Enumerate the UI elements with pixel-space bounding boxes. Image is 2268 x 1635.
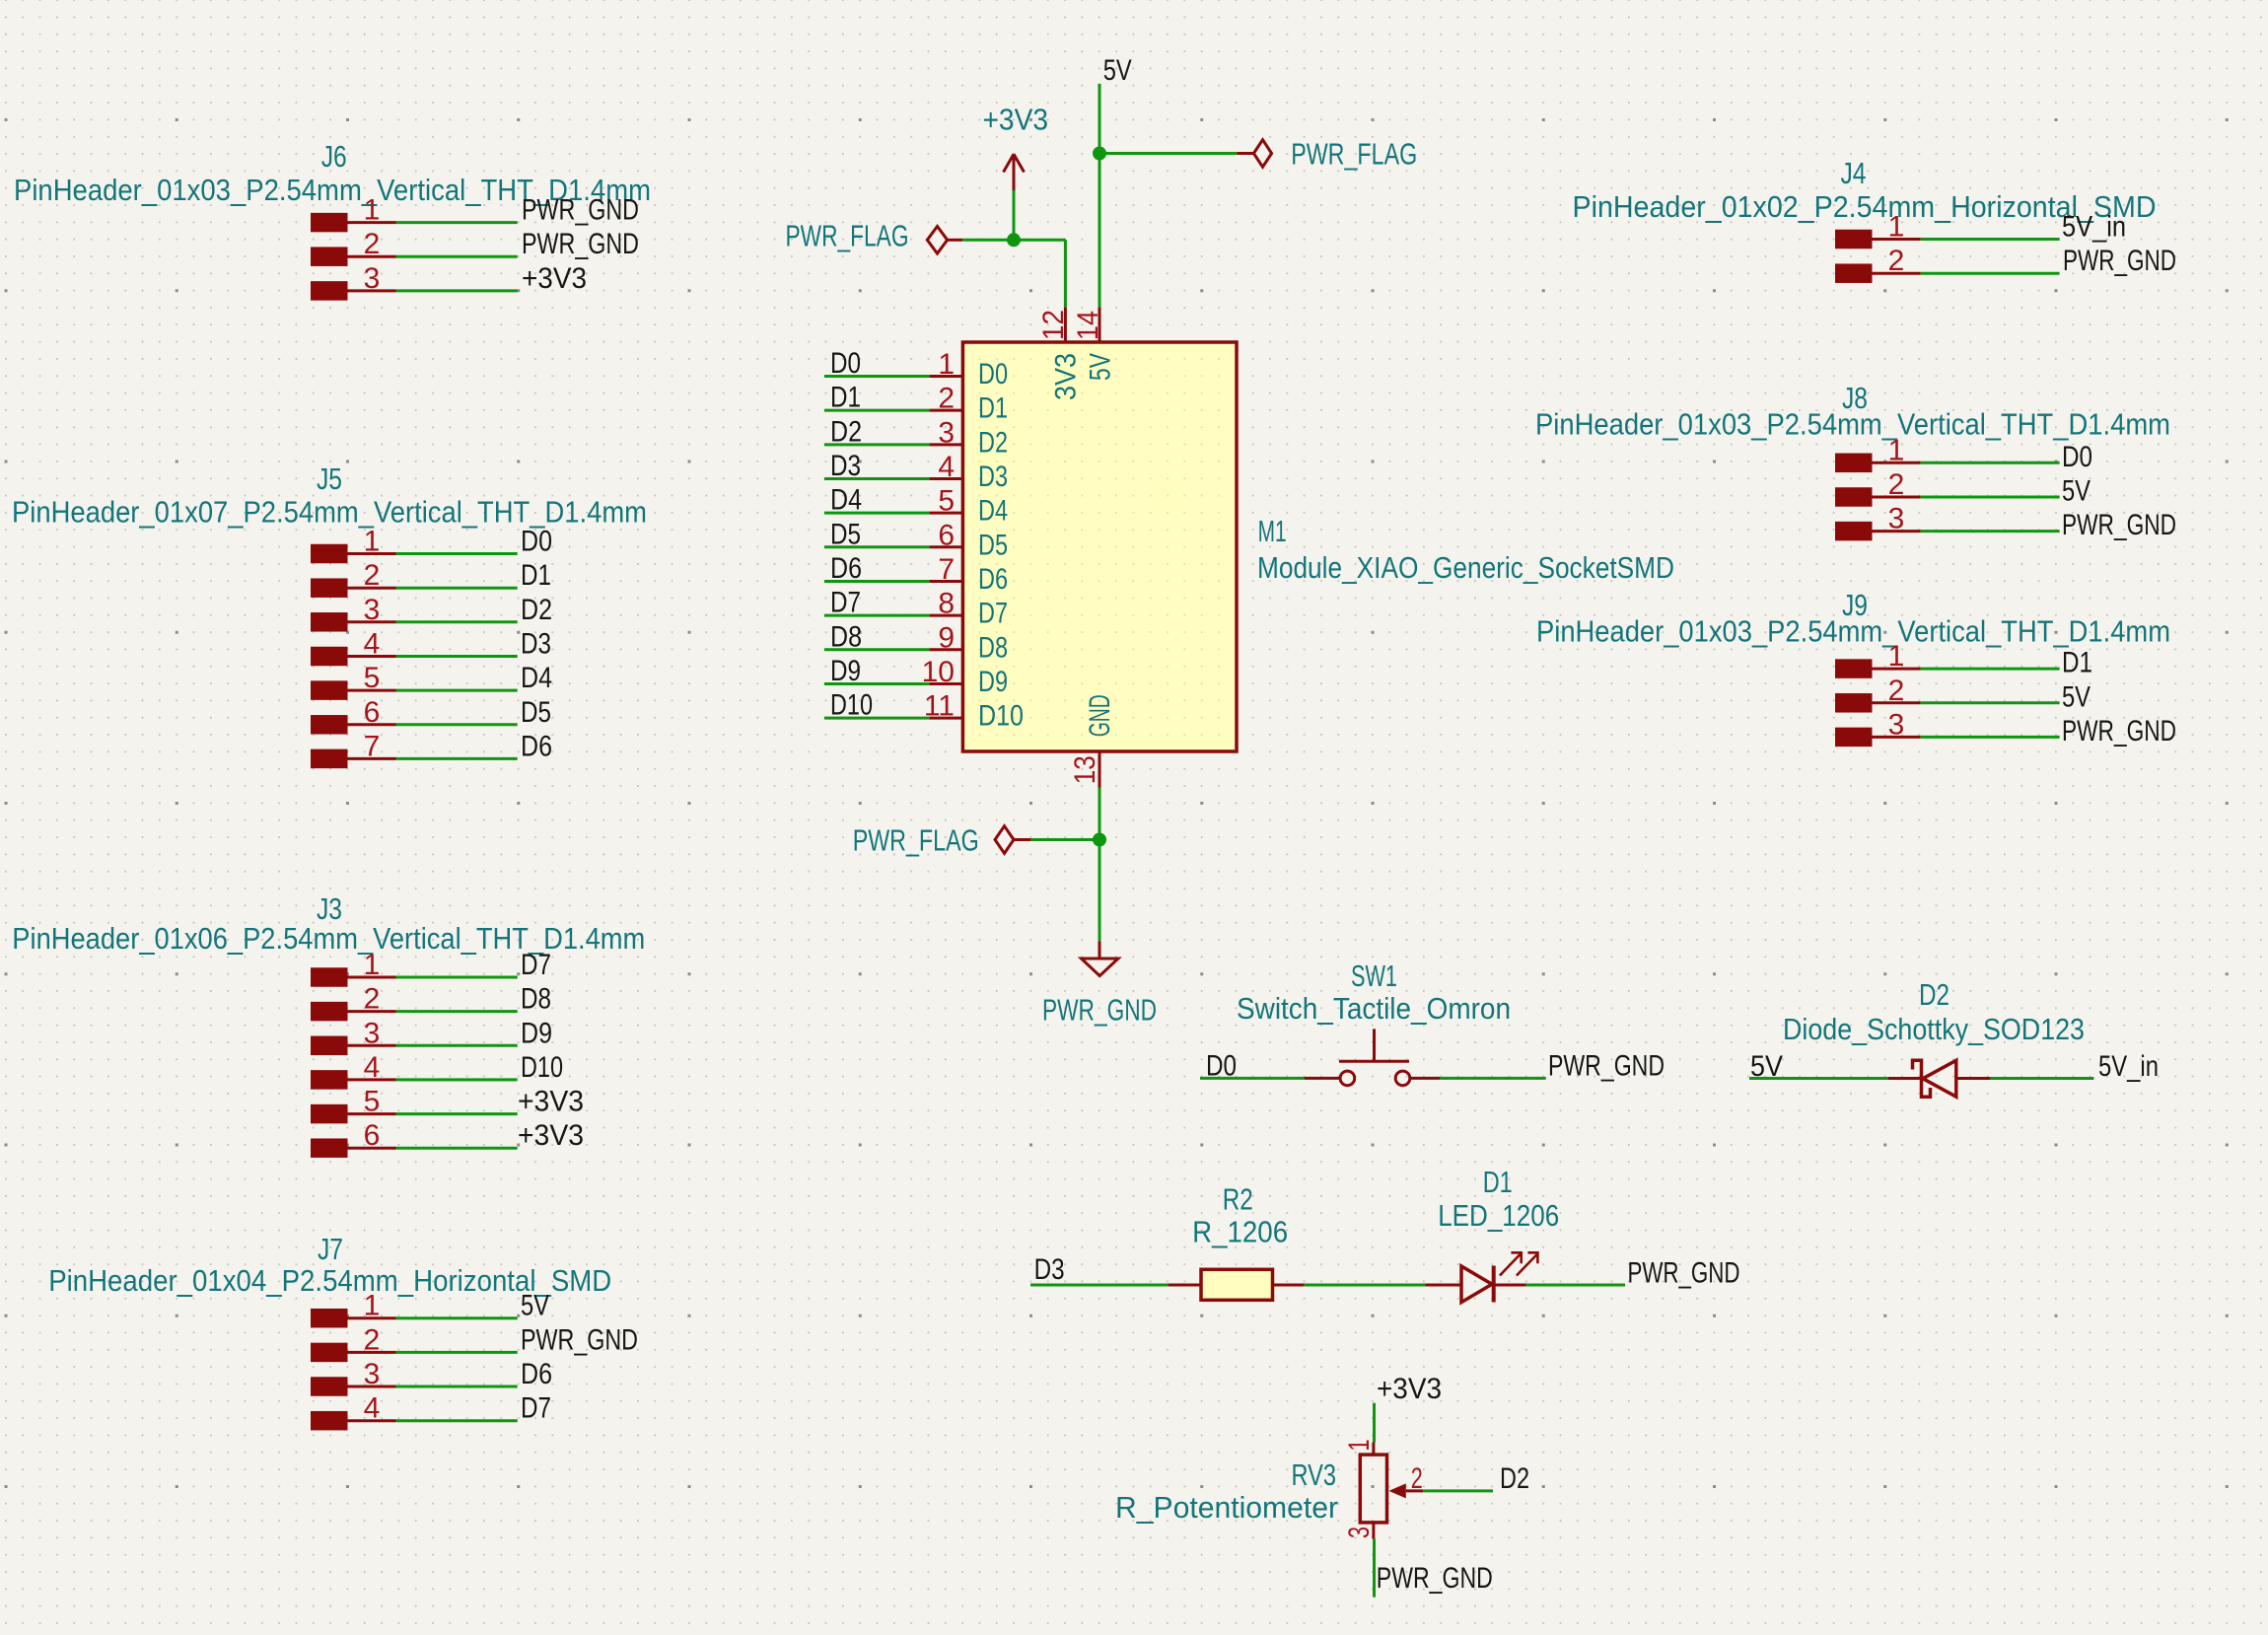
wire PWR_GND to J9 pin 3 — [1921, 736, 2060, 739]
R2 pin 2 line — [1273, 1284, 1305, 1287]
J9 pin 1 line — [1873, 668, 1921, 671]
svg-text:D10: D10 — [978, 700, 1024, 733]
svg-text:PWR_FLAG: PWR_FLAG — [786, 218, 909, 252]
svg-text:M1: M1 — [1258, 514, 1287, 548]
svg-text:D3: D3 — [521, 628, 551, 661]
svg-text:D6: D6 — [521, 1358, 552, 1390]
svg-text:PWR_GND: PWR_GND — [522, 228, 639, 260]
J7 pin 1 pad — [311, 1309, 348, 1328]
wire 5V to J7 pin 1 — [396, 1316, 518, 1319]
wire PWR_GND to J6 pin 1 — [396, 221, 518, 224]
power flag PF3 diamond — [995, 826, 1014, 854]
J7 pin 3 pad — [311, 1377, 348, 1396]
wire 5V vertical — [1099, 84, 1101, 308]
svg-text:D0: D0 — [830, 347, 861, 380]
power flag PF3 pin — [1014, 838, 1031, 841]
junction +3V3 — [1007, 233, 1021, 247]
svg-text:SW1: SW1 — [1351, 959, 1397, 993]
J5 pin 1 line — [348, 552, 396, 555]
J4 pin 2 pad — [1835, 263, 1873, 283]
wire D9 to J3 pin 3 — [396, 1044, 518, 1047]
svg-text:D2: D2 — [978, 426, 1008, 459]
M1 pin 11 line — [929, 717, 962, 720]
wire D2 to J5 pin 3 — [396, 620, 518, 623]
J8 pin 3 line — [1873, 530, 1921, 533]
svg-text:R2: R2 — [1223, 1182, 1253, 1217]
wire 5V to J9 pin 2 — [1921, 701, 2060, 704]
wire D0 to M1 pin 1 — [824, 375, 929, 378]
wire D1 to M1 pin 2 — [824, 409, 929, 412]
J3 pin 2 pad — [311, 1002, 348, 1022]
J7 pin 3 line — [348, 1386, 396, 1388]
J4 pin 1 line — [1873, 238, 1921, 241]
svg-text:D1: D1 — [521, 559, 551, 592]
wire D0 to J8 pin 1 — [1921, 462, 2060, 464]
D1 anode triangle — [1461, 1266, 1492, 1303]
SW1 contact circle left — [1340, 1071, 1355, 1086]
svg-text:12: 12 — [1037, 310, 1070, 340]
J3 pin 1 line — [348, 976, 396, 979]
svg-text:D2: D2 — [830, 415, 862, 448]
svg-text:5V_in: 5V_in — [2062, 211, 2126, 244]
svg-text:R_Potentiometer: R_Potentiometer — [1115, 1490, 1338, 1525]
J6 pin 1 line — [348, 221, 396, 224]
power flag PF2 diamond — [1253, 140, 1271, 168]
svg-text:PWR_GND: PWR_GND — [2062, 715, 2176, 747]
D1 emission arrow 1 — [1500, 1252, 1522, 1275]
R2 pin 1 line — [1169, 1284, 1201, 1287]
J3 pin 3 pad — [311, 1036, 348, 1056]
wire M1 pin 13 to ground — [1099, 788, 1101, 942]
wire D10 to M1 pin 11 — [824, 717, 929, 720]
wire 5V to D2 — [1749, 1077, 1888, 1080]
J9 pin 2 pad — [1835, 693, 1873, 713]
svg-text:D6: D6 — [978, 563, 1008, 596]
D1 cathode bar — [1492, 1266, 1496, 1303]
svg-text:PinHeader_01x03_P2.54mm_Vertic: PinHeader_01x03_P2.54mm_Vertical_THT_D1.… — [1535, 407, 2170, 442]
wire D0 to J5 pin 1 — [396, 552, 518, 555]
junction GND — [1093, 833, 1106, 847]
J5 pin 1 pad — [311, 544, 348, 564]
wire SW1 to PWR_GND — [1440, 1077, 1546, 1080]
wire RV3 to PWR_GND — [1373, 1538, 1376, 1597]
svg-text:D9: D9 — [978, 666, 1008, 698]
wire PWR_GND to J6 pin 2 — [396, 255, 518, 258]
M1 pin 3 line — [929, 443, 962, 446]
potentiometer RV3 body — [1360, 1455, 1386, 1523]
J5 pin 4 pad — [311, 647, 348, 667]
module M1 body — [962, 342, 1237, 751]
wire D1 to J9 pin 1 — [1921, 668, 2060, 671]
J3 pin 4 line — [348, 1078, 396, 1081]
wire D6 to J5 pin 7 — [396, 757, 518, 760]
J3 pin 5 line — [348, 1112, 396, 1115]
wire D1 to PWR_GND — [1526, 1284, 1625, 1287]
D2 cathode schottky bar — [1913, 1060, 1931, 1097]
J8 pin 3 pad — [1835, 522, 1873, 541]
svg-text:D6: D6 — [830, 552, 862, 585]
J6 pin 2 pad — [311, 247, 348, 266]
J3 pin 1 pad — [311, 967, 348, 987]
J7 pin 2 line — [348, 1351, 396, 1354]
RV3 pin 2 line — [1406, 1489, 1424, 1492]
svg-text:J5: J5 — [317, 462, 342, 496]
wire 5V_in to J4 pin 1 — [1921, 238, 2060, 241]
svg-text:D3: D3 — [978, 461, 1008, 493]
M1 pin 14 line — [1099, 307, 1101, 342]
svg-text:3: 3 — [938, 416, 955, 449]
J6 pin 3 line — [348, 289, 396, 292]
J6 pin 2 line — [348, 255, 396, 258]
junction 5V — [1093, 147, 1106, 161]
J7 pin 1 line — [348, 1316, 396, 1319]
M1 pin 13 line — [1099, 751, 1101, 788]
wire D10 to J3 pin 4 — [396, 1078, 518, 1081]
svg-text:Switch_Tactile_Omron: Switch_Tactile_Omron — [1237, 991, 1511, 1026]
power flag PF1 diamond — [927, 227, 947, 254]
svg-text:PWR_GND: PWR_GND — [2062, 509, 2176, 541]
SW1 actuator bar — [1339, 1060, 1409, 1063]
svg-text:D8: D8 — [978, 631, 1008, 664]
SW1 pin 1 line — [1305, 1077, 1340, 1080]
wire PWR_GND to J4 pin 2 — [1921, 272, 2060, 275]
J7 pin 4 line — [348, 1419, 396, 1422]
svg-text:2: 2 — [1411, 1462, 1423, 1495]
svg-text:GND: GND — [1084, 694, 1116, 737]
wire D2 to 5V_in — [1990, 1077, 2093, 1080]
svg-text:R_1206: R_1206 — [1192, 1215, 1288, 1249]
resistor R2 body — [1201, 1269, 1273, 1300]
svg-text:PWR_GND: PWR_GND — [521, 1323, 638, 1356]
wire D6 to M1 pin 7 — [824, 580, 929, 583]
wire 5V to J8 pin 2 — [1921, 496, 2060, 499]
J3 pin 2 line — [348, 1010, 396, 1013]
J8 pin 1 pad — [1835, 454, 1873, 473]
wire PWR_FLAG to GND net — [1031, 838, 1099, 841]
SW1 contact circle right — [1395, 1071, 1410, 1086]
wire D1 to J5 pin 2 — [396, 587, 518, 590]
RV3 wiper arrow — [1388, 1483, 1405, 1498]
M1 pin 4 line — [929, 477, 962, 480]
svg-text:D5: D5 — [521, 696, 551, 729]
svg-text:13: 13 — [1069, 755, 1101, 784]
wire +3V3 stem — [1013, 190, 1016, 240]
J4 pin 1 pad — [1835, 230, 1873, 249]
svg-text:D4: D4 — [978, 495, 1008, 528]
svg-text:J7: J7 — [318, 1232, 343, 1266]
J8 pin 1 line — [1873, 462, 1921, 464]
svg-text:+3V3: +3V3 — [1377, 1373, 1442, 1405]
J8 pin 2 pad — [1835, 487, 1873, 507]
wire D6 to J7 pin 3 — [396, 1386, 518, 1388]
svg-text:J4: J4 — [1841, 156, 1867, 190]
D1 pin 1 line — [1426, 1284, 1462, 1287]
svg-text:RV3: RV3 — [1292, 1457, 1337, 1492]
svg-text:3V3: 3V3 — [1049, 353, 1082, 400]
svg-text:5V: 5V — [1084, 353, 1116, 381]
svg-text:D7: D7 — [830, 587, 861, 619]
svg-text:Diode_Schottky_SOD123: Diode_Schottky_SOD123 — [1783, 1012, 2085, 1046]
wire +3V3 to J6 pin 3 — [396, 289, 518, 292]
M1 pin 7 line — [929, 580, 962, 583]
svg-text:D5: D5 — [830, 518, 861, 550]
wire D2 to M1 pin 3 — [824, 443, 929, 446]
wire D7 to J7 pin 4 — [396, 1419, 518, 1422]
J9 pin 1 pad — [1835, 659, 1873, 678]
J5 pin 7 pad — [311, 749, 348, 769]
J5 pin 4 line — [348, 655, 396, 658]
wire +3V3 to J3 pin 6 — [396, 1147, 518, 1150]
wire D7 to M1 pin 8 — [824, 614, 929, 617]
D1 emission arrow 2 — [1517, 1252, 1538, 1275]
svg-text:J6: J6 — [321, 139, 347, 174]
J5 pin 3 line — [348, 620, 396, 623]
svg-text:1: 1 — [1343, 1440, 1376, 1452]
svg-text:5V: 5V — [1103, 54, 1132, 87]
wire D0 to SW1 — [1200, 1077, 1305, 1080]
J5 pin 6 line — [348, 723, 396, 726]
RV3 pin 3 line — [1372, 1523, 1375, 1539]
wire PWR_GND to J8 pin 3 — [1921, 530, 2060, 533]
svg-text:5: 5 — [938, 485, 955, 518]
SW1 pin 2 line — [1410, 1077, 1440, 1080]
svg-text:D8: D8 — [521, 983, 551, 1016]
M1 pin 6 line — [929, 545, 962, 548]
svg-text:D0: D0 — [978, 358, 1008, 391]
M1 pin 1 line — [929, 375, 962, 378]
svg-text:D1: D1 — [830, 382, 861, 414]
power flag PF2 pin — [1237, 152, 1253, 155]
svg-text:2: 2 — [938, 383, 955, 415]
svg-text:5V: 5V — [2062, 680, 2091, 713]
svg-text:4: 4 — [938, 451, 955, 483]
svg-text:PWR_FLAG: PWR_FLAG — [853, 823, 979, 858]
svg-text:3: 3 — [1343, 1527, 1376, 1538]
module M1 body grid dots — [964, 344, 1235, 749]
M1 pin 5 line — [929, 512, 962, 515]
wire R2 to D1 — [1305, 1284, 1426, 1287]
D2 anode triangle — [1923, 1060, 1956, 1097]
M1 pin 8 line — [929, 614, 962, 617]
J7 pin 2 pad — [311, 1343, 348, 1363]
svg-text:PWR_FLAG: PWR_FLAG — [1291, 137, 1417, 172]
svg-text:PWR_GND: PWR_GND — [1377, 1562, 1493, 1595]
svg-text:D10: D10 — [830, 689, 873, 722]
wire 5V to PWR_FLAG horizontal — [1099, 152, 1237, 155]
svg-text:D0: D0 — [521, 526, 552, 558]
svg-text:8: 8 — [938, 588, 955, 620]
svg-text:D5: D5 — [978, 529, 1008, 561]
J4 pin 2 line — [1873, 272, 1921, 275]
svg-text:D4: D4 — [521, 662, 552, 694]
wire +3V3 to J3 pin 5 — [396, 1112, 518, 1115]
J6 pin 3 pad — [311, 281, 348, 301]
wire RV3 wiper to D2 — [1423, 1489, 1493, 1492]
svg-text:Module_XIAO_Generic_SocketSMD: Module_XIAO_Generic_SocketSMD — [1257, 550, 1674, 585]
svg-text:D7: D7 — [521, 949, 551, 981]
J3 pin 3 line — [348, 1044, 396, 1047]
power symbol +3V3 arrow — [1004, 154, 1025, 190]
wire D3 to J5 pin 4 — [396, 655, 518, 658]
M1 pin 9 line — [929, 648, 962, 651]
svg-text:LED_1206: LED_1206 — [1438, 1198, 1559, 1233]
wire 3V3 rail down to M1 pin 12 — [1064, 240, 1067, 307]
power symbol PWR_GND pin — [1099, 941, 1101, 959]
wire D4 to J5 pin 5 — [396, 689, 518, 692]
J5 pin 5 line — [348, 689, 396, 692]
wire D4 to M1 pin 5 — [824, 512, 929, 515]
svg-text:5V_in: 5V_in — [2098, 1050, 2159, 1083]
svg-text:D9: D9 — [521, 1017, 552, 1049]
D2 pin 1 line — [1888, 1077, 1923, 1080]
svg-text:D3: D3 — [1034, 1253, 1065, 1286]
J3 pin 6 pad — [311, 1138, 348, 1158]
J3 pin 6 line — [348, 1147, 396, 1150]
D2 pin 2 line — [1956, 1077, 1991, 1080]
M1 pin 2 line — [929, 409, 962, 412]
svg-text:D1: D1 — [1483, 1165, 1513, 1199]
J6 pin 1 pad — [311, 213, 348, 233]
svg-text:PWR_GND: PWR_GND — [522, 194, 639, 227]
svg-text:PinHeader_01x03_P2.54mm_Vertic: PinHeader_01x03_P2.54mm_Vertical_THT_D1.… — [1536, 614, 2170, 649]
J5 pin 2 line — [348, 587, 396, 590]
svg-text:D7: D7 — [978, 598, 1008, 630]
svg-text:D2: D2 — [1919, 977, 1949, 1012]
svg-text:9: 9 — [938, 621, 955, 654]
svg-text:+3V3: +3V3 — [518, 1119, 584, 1152]
wire D7 to J3 pin 1 — [396, 976, 518, 979]
wire D8 to M1 pin 9 — [824, 648, 929, 651]
svg-text:PWR_GND: PWR_GND — [1628, 1256, 1740, 1289]
power flag PF1 pin — [948, 239, 963, 242]
svg-text:D6: D6 — [521, 730, 552, 762]
M1 pin 10 line — [929, 682, 962, 685]
RV3 pin 1 line — [1372, 1443, 1375, 1456]
J5 pin 5 pad — [311, 680, 348, 700]
svg-text:D10: D10 — [521, 1051, 563, 1084]
J5 pin 7 line — [348, 757, 396, 760]
J7 pin 4 pad — [311, 1411, 348, 1431]
svg-text:D1: D1 — [2062, 647, 2092, 679]
svg-text:D0: D0 — [2062, 441, 2092, 473]
wire +3V3 to RV3 — [1373, 1403, 1376, 1443]
wire D3 to M1 pin 4 — [824, 477, 929, 480]
J9 pin 3 line — [1873, 736, 1921, 739]
svg-text:6: 6 — [938, 519, 955, 551]
svg-text:7: 7 — [938, 553, 955, 586]
wire D3 to R2 — [1030, 1284, 1169, 1287]
wire D9 to M1 pin 10 — [824, 682, 929, 685]
svg-text:D2: D2 — [1500, 1462, 1529, 1495]
svg-text:+3V3: +3V3 — [518, 1086, 584, 1118]
svg-text:PWR_GND: PWR_GND — [1042, 993, 1157, 1028]
svg-text:D3: D3 — [830, 450, 861, 482]
J9 pin 2 line — [1873, 701, 1921, 704]
svg-text:+3V3: +3V3 — [983, 103, 1049, 137]
svg-text:1: 1 — [938, 348, 955, 381]
wire PWR_GND to J7 pin 2 — [396, 1351, 518, 1354]
wire D8 to J3 pin 2 — [396, 1010, 518, 1013]
svg-text:+3V3: +3V3 — [522, 262, 587, 295]
svg-text:14: 14 — [1072, 311, 1104, 340]
svg-text:PinHeader_01x07_P2.54mm_Vertic: PinHeader_01x07_P2.54mm_Vertical_THT_D1.… — [12, 494, 647, 529]
svg-text:D1: D1 — [978, 392, 1008, 425]
svg-text:D7: D7 — [521, 1392, 551, 1425]
svg-text:D2: D2 — [521, 594, 552, 626]
J8 pin 2 line — [1873, 496, 1921, 499]
J9 pin 3 pad — [1835, 728, 1873, 747]
svg-text:PWR_GND: PWR_GND — [2063, 245, 2176, 277]
svg-text:D4: D4 — [830, 484, 862, 517]
J3 pin 5 pad — [311, 1104, 348, 1124]
svg-text:5V: 5V — [521, 1290, 549, 1322]
J5 pin 2 pad — [311, 578, 348, 598]
svg-text:PWR_GND: PWR_GND — [1548, 1049, 1665, 1082]
J5 pin 6 pad — [311, 715, 348, 735]
wire D5 to M1 pin 6 — [824, 545, 929, 548]
J3 pin 4 pad — [311, 1070, 348, 1090]
power symbol PWR_GND triangle — [1082, 959, 1119, 976]
SW1 actuator stem — [1373, 1029, 1376, 1061]
svg-text:5V: 5V — [2062, 475, 2091, 508]
J5 pin 3 pad — [311, 612, 348, 632]
M1 pin 12 line — [1064, 307, 1067, 342]
wire PWR_FLAG to 3V3 rail — [962, 239, 1065, 242]
svg-text:D9: D9 — [830, 655, 861, 687]
svg-text:D8: D8 — [830, 620, 862, 653]
wire D5 to J5 pin 6 — [396, 723, 518, 726]
D1 pin 2 line — [1494, 1284, 1526, 1287]
